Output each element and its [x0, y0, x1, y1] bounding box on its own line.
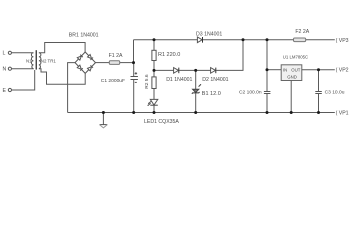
svg-text:E: E [3, 88, 7, 94]
wire E [12, 70, 35, 90]
transformer TR1 core [36, 50, 37, 69]
bottom 0V rail [68, 112, 335, 114]
svg-text:( VP3: ( VP3 [336, 38, 349, 44]
top +V rail [134, 39, 335, 41]
wire C1 to 0V rail [133, 80, 135, 113]
ground symbol [100, 113, 108, 128]
bridge diode bottom-left [77, 65, 83, 71]
svg-text:F1 2A: F1 2A [109, 53, 123, 59]
svg-text:IN: IN [283, 67, 287, 72]
svg-text:R2 5.6: R2 5.6 [144, 74, 150, 89]
svg-text:( VP2: ( VP2 [336, 68, 349, 74]
svg-text:F2 2A: F2 2A [295, 29, 309, 35]
svg-text:( VP1: ( VP1 [336, 111, 349, 117]
wire junction down to C1 [133, 63, 135, 77]
transformer TR1 primary winding [31, 53, 33, 69]
wire D2 to riser [216, 40, 243, 71]
bridge rectifier BR1 diamond [75, 52, 96, 73]
svg-text:L: L [3, 51, 6, 57]
terminal N [8, 67, 11, 70]
svg-text:BR1 1N4001: BR1 1N4001 [69, 32, 99, 38]
svg-text:N1: N1 [26, 58, 32, 63]
wire IN junction to regulator [267, 69, 281, 71]
wire secondary top to bridge [39, 43, 85, 53]
wire bridge plus to fuse F1 [96, 62, 110, 64]
svg-text:C2 100.0n: C2 100.0n [239, 89, 262, 95]
wire LED to 0V rail [153, 105, 155, 112]
svg-text:D2 1N4001: D2 1N4001 [202, 77, 228, 83]
wire junction up to +V rail [133, 40, 135, 63]
wire regulator GND to 0V rail [290, 81, 292, 113]
wire C3 to 0V rail [318, 94, 320, 113]
capacitor C1 2000uF plates [131, 77, 138, 80]
wire C3 top [318, 70, 320, 92]
capacitor C2 100.0n plates [264, 92, 271, 94]
wire C2 to 0V rail [266, 94, 268, 113]
svg-text:B1 12.0: B1 12.0 [202, 91, 221, 97]
wire node to D1 [154, 69, 174, 71]
wire regulator OUT [302, 69, 335, 71]
capacitor C3 10.0u plates [315, 92, 322, 94]
C1 plus sign [135, 72, 137, 74]
fuse F2 2A [294, 38, 306, 42]
wire N to primary bottom [12, 68, 34, 70]
terminal L [8, 51, 11, 54]
wire secondary bottom to bridge [39, 69, 85, 85]
LED1 CQX35A [147, 99, 157, 106]
wire L to primary [12, 52, 34, 54]
terminal E [8, 88, 11, 91]
wire zener to 0V rail [195, 93, 197, 113]
bridge diode top-right [88, 54, 94, 60]
svg-text:R1 220.0: R1 220.0 [158, 52, 180, 58]
wire R1 top [153, 40, 155, 51]
bridge diode top-left [77, 55, 83, 61]
bridge diode bottom-right [88, 65, 94, 71]
wire R1 bottom to node [153, 61, 155, 71]
svg-text:N: N [3, 67, 7, 73]
wire D1 to D2 [179, 69, 211, 71]
wire bridge minus down to 0V rail [68, 63, 75, 113]
C1 minus sign [135, 81, 137, 83]
svg-text:OUT: OUT [291, 67, 300, 72]
svg-text:D3 1N4001: D3 1N4001 [196, 31, 222, 37]
zener B1 12.0 [192, 84, 201, 94]
wire F1 to junction [120, 62, 134, 64]
transformer TR1 secondary winding [39, 53, 41, 69]
resistor R1 220.0 [152, 50, 156, 60]
diode D2 1N4001 [211, 68, 216, 74]
wire R2 to LED [153, 89, 155, 100]
svg-text:D1 1N4001: D1 1N4001 [166, 77, 192, 83]
junction dots [102, 38, 320, 114]
wire R2 top [153, 70, 155, 77]
svg-text:N2 TR1: N2 TR1 [41, 58, 57, 63]
wire riser to regulator IN [266, 40, 268, 91]
svg-text:LED1 CQX35A: LED1 CQX35A [144, 119, 179, 125]
wire zener B1 top [195, 70, 197, 89]
fuse F1 2A [109, 61, 119, 65]
svg-text:C1 2000uF: C1 2000uF [101, 78, 125, 84]
diode D3 1N4001 on +V rail [197, 37, 202, 43]
svg-text:GND: GND [287, 74, 297, 79]
svg-text:U1 LM7805C: U1 LM7805C [283, 55, 308, 60]
voltage regulator U1 LM7805C [281, 65, 302, 81]
diode D1 1N4001 [174, 68, 179, 74]
svg-text:C3 10.0u: C3 10.0u [325, 89, 345, 95]
resistor R2 [152, 77, 156, 89]
